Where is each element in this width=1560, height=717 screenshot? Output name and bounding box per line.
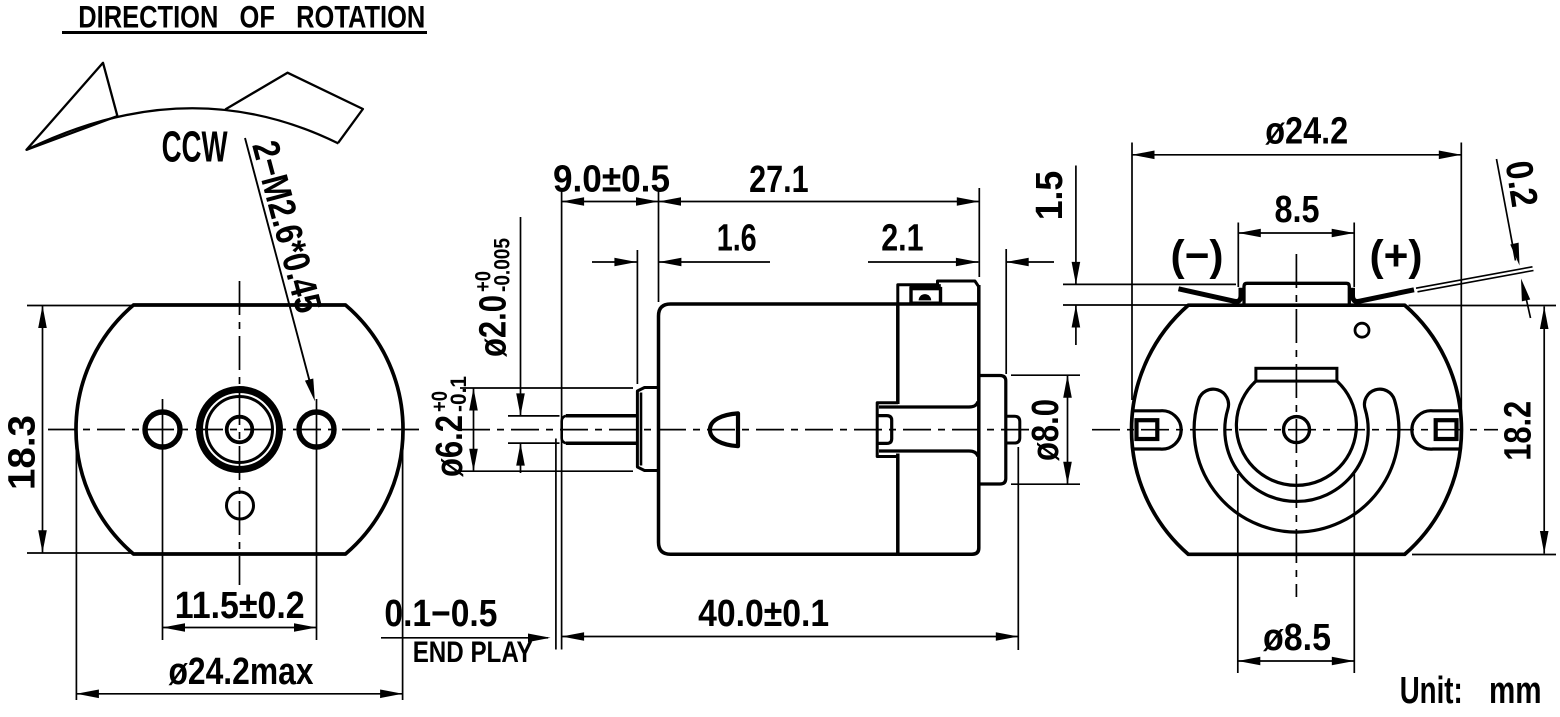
left hole centerline-extension [162, 399, 164, 640]
rear shaft stub [1006, 416, 1020, 443]
dimension o8.0 extension top [1011, 374, 1080, 376]
svg-text:27.1: 27.1 [749, 159, 809, 201]
front bearing boss [637, 388, 658, 471]
dimension 1.5 line lower [1075, 305, 1077, 345]
terminal sheet thin line lower [1418, 271, 1534, 292]
dimension 8.5 extension right [1353, 223, 1355, 288]
svg-text:9.0±0.5: 9.0±0.5 [553, 159, 670, 201]
right view vertical centerline [1295, 254, 1297, 597]
svg-text:1.6: 1.6 [717, 218, 757, 260]
bearing boss circle [1236, 381, 1356, 485]
dimension 1.5 extension lower [1063, 304, 1188, 306]
svg-text:END PLAY: END PLAY [413, 636, 533, 669]
svg-text:ø24.2max: ø24.2max [169, 651, 314, 693]
dimension 18.3 line [42, 306, 44, 553]
endcap terminal bump outline [898, 281, 979, 304]
dimension 18.3 extension top [27, 305, 134, 307]
middle view centerline [462, 429, 1038, 431]
dimension 18.2 line [1543, 307, 1545, 554]
bearing tube bore bottom [879, 451, 978, 457]
horseshoe vent slot [1194, 389, 1399, 532]
dimension 9.0 and 27.1 extension at can face [658, 188, 660, 302]
dimension o24.2 extension left [1131, 143, 1133, 401]
shaft top line [566, 414, 637, 418]
terminal window [911, 289, 941, 304]
endcap bottom and right face [898, 285, 979, 554]
dimension 40.0 extension right [1017, 447, 1019, 650]
endcap top edge [898, 302, 979, 306]
end play leader line [381, 637, 548, 639]
left view outline [76, 305, 403, 554]
dimension o24.2 extension right [1460, 143, 1462, 425]
motor can outline [659, 304, 898, 554]
terminal window top band [910, 284, 941, 289]
rear bearing boss [979, 376, 1006, 485]
svg-text:18.2: 18.2 [1498, 401, 1540, 461]
svg-text:40.0±0.1: 40.0±0.1 [698, 593, 829, 635]
svg-text:0.1−0.5: 0.1−0.5 [384, 593, 497, 635]
dimension 27.1 line [659, 201, 980, 203]
dimension o6.2 extension top [460, 387, 633, 389]
terminal right [1353, 288, 1415, 302]
right notch tab [1436, 420, 1457, 439]
right notch keyhole [1412, 411, 1460, 449]
dimension o24.2max extension left [75, 430, 77, 700]
dimension o2.0 line lower [520, 443, 522, 473]
dimension 1.5 line upper [1075, 166, 1077, 285]
small hole upper right [1355, 323, 1369, 337]
direction marker inside can [710, 413, 738, 446]
svg-text:Unit:: Unit: [1400, 670, 1463, 712]
svg-text:ø24.2: ø24.2 [1265, 110, 1348, 152]
left view vertical centerline [239, 281, 241, 585]
dimension text o6.2 with tolerance [427, 376, 471, 477]
dimension o24.2max line [76, 693, 402, 695]
bearing tube bore top [879, 402, 978, 408]
right view outline [1132, 305, 1462, 554]
svg-text:CCW: CCW [162, 123, 228, 172]
left notch tab [1137, 420, 1158, 439]
rotation arc [27, 108, 339, 150]
mounting hole left M2.6 [145, 412, 180, 447]
terminal sheet thin line upper [1416, 267, 1533, 288]
rotation arrowhead (open triangle) [27, 63, 118, 150]
shaft bottom line [566, 441, 637, 445]
svg-text:ø6.2: ø6.2 [429, 415, 471, 477]
leader arrowhead [305, 378, 319, 402]
dimension 8.5 extension left [1237, 223, 1239, 288]
svg-text:mm: mm [1489, 670, 1542, 712]
dimension o6.2 extension bottom [460, 470, 633, 472]
dimension 1.6 tail line [659, 261, 770, 263]
dimension 0.2 leader lower [1525, 291, 1531, 318]
dimension 1.6 approach line [592, 261, 637, 263]
right hole centerline-extension [316, 399, 318, 640]
bearing pocket [877, 403, 898, 457]
dimension 2.1 approach line [868, 261, 978, 263]
dimension o8.0 extension bottom [1011, 483, 1080, 485]
dimension 11.5 line [163, 627, 317, 629]
dimension o8.5 extension left [1237, 474, 1239, 673]
terminal left [1179, 288, 1242, 302]
dimension 1.6 extension [636, 250, 638, 384]
terminal block [1244, 283, 1349, 305]
front boss chamfer line [640, 393, 643, 466]
svg-text:0.2: 0.2 [1497, 158, 1545, 210]
left view horizontal centerline [48, 429, 424, 431]
svg-text:ø8.0: ø8.0 [1025, 399, 1067, 461]
svg-text:(+): (+) [1370, 232, 1423, 280]
dimension 1.5 extension upper [1063, 283, 1236, 285]
small hole below center [227, 492, 254, 519]
can right face upper [896, 303, 900, 405]
bushing bracket [878, 416, 892, 444]
dimension 9.0 line [562, 201, 659, 203]
dimension o24.2 line [1132, 154, 1461, 156]
dimension o8.0 line [1067, 375, 1069, 484]
dimension o2.0 extension bottom [508, 442, 560, 444]
dimension 18.3 extension bottom [27, 552, 134, 554]
title underline [62, 31, 427, 34]
dimension 9.0 extension-endplay line [561, 190, 563, 650]
center shaft hole rear [1284, 417, 1310, 443]
dimension o8.5 extension right [1353, 474, 1355, 673]
shaft hole [227, 417, 253, 443]
mounting hole right M2.6 [299, 412, 334, 447]
dimension o6.2 line [473, 388, 475, 471]
svg-text:(−): (−) [1171, 232, 1224, 280]
right view horizontal centerline [1092, 429, 1498, 431]
dimension 8.5 line [1238, 232, 1354, 234]
svg-text:18.3: 18.3 [2, 415, 44, 490]
boss outer circle [200, 390, 280, 470]
leader line 2-M2.6*0.45 [245, 138, 313, 392]
svg-text:1.5: 1.5 [1029, 171, 1071, 221]
terminal dome [919, 294, 932, 300]
dimension 18.2 extension bottom [1412, 554, 1556, 556]
dimension o24.2max extension right [402, 430, 404, 700]
dimension 40.0 line [562, 636, 1019, 638]
svg-text:8.5: 8.5 [1275, 189, 1320, 231]
can right face lower [896, 454, 900, 556]
left notch keyhole [1133, 411, 1181, 449]
rotation flag quad [225, 73, 363, 143]
shaft tip face [562, 416, 566, 443]
dimension o2.0 line upper [520, 217, 522, 416]
boss chamfer circle [207, 397, 273, 463]
svg-text:-0.1: -0.1 [446, 376, 471, 412]
dimension o8.5 line [1238, 660, 1355, 662]
svg-text:ø2.0: ø2.0 [472, 295, 514, 357]
end play second line [555, 439, 557, 650]
dimension 18.2 extension top [1409, 305, 1557, 307]
svg-text:-0.005: -0.005 [489, 238, 514, 292]
svg-text:ø8.5: ø8.5 [1263, 617, 1331, 659]
dimension o2.0 extension top [508, 415, 560, 417]
dimension text o2.0 with tolerance [470, 238, 514, 357]
dimension 2.1 tail line [1006, 261, 1054, 263]
dimension 0.2 leader upper [1497, 159, 1516, 261]
svg-text:11.5±0.2: 11.5±0.2 [175, 585, 305, 627]
svg-text:2.1: 2.1 [881, 218, 923, 260]
dimension 27.1 extension right [978, 188, 980, 277]
dimension 2.1 extension [1005, 249, 1007, 374]
brush card bump rect [1256, 368, 1337, 381]
svg-text:DIRECTION OF ROTATION: DIRECTION OF ROTATION [78, 0, 425, 34]
